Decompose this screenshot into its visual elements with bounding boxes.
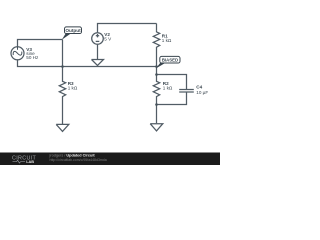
svg-text:10 µF: 10 µF [196, 90, 208, 95]
svg-text:C4: C4 [196, 85, 202, 90]
svg-text:50 Hz: 50 Hz [26, 55, 39, 60]
svg-text:http://circuitlab.com/c/95fa44: http://circuitlab.com/c/95fa448d3mda [50, 158, 107, 162]
svg-text:Output: Output [65, 28, 81, 33]
svg-text:1 kΩ: 1 kΩ [162, 38, 172, 43]
svg-text:5 V: 5 V [104, 36, 112, 41]
svg-text:1 kΩ: 1 kΩ [68, 86, 78, 91]
svg-text:1 kΩ: 1 kΩ [163, 86, 173, 91]
svg-text:BIASED: BIASED [162, 58, 178, 63]
svg-text:jrodgers / Updated Circuit: jrodgers / Updated Circuit [49, 154, 96, 158]
svg-text:LAB: LAB [26, 160, 34, 164]
